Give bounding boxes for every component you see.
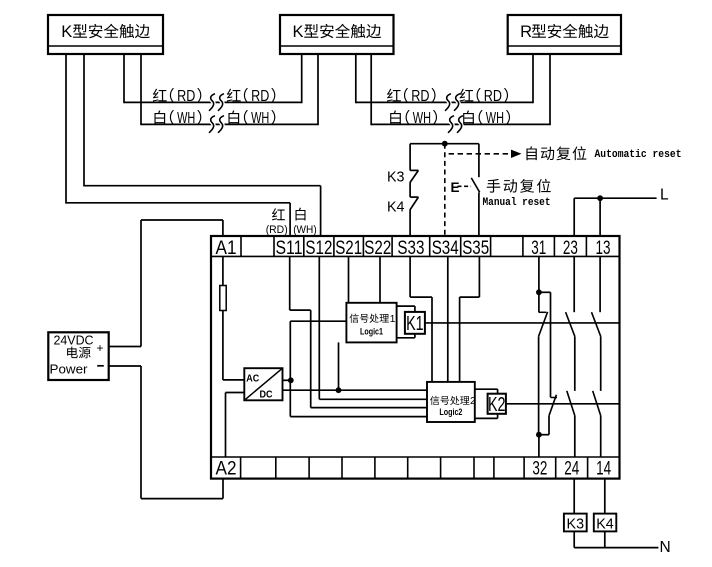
svg-text:Power: Power <box>50 361 89 376</box>
svg-text:13: 13 <box>596 238 611 259</box>
svg-text:WH: WH <box>486 110 504 127</box>
svg-text:14: 14 <box>596 459 611 480</box>
svg-text:A2: A2 <box>216 459 237 480</box>
svg-text:RD: RD <box>411 88 429 105</box>
svg-text:WH: WH <box>177 110 195 127</box>
svg-text:(RD): (RD) <box>266 224 288 236</box>
svg-text:K1: K1 <box>406 313 424 335</box>
svg-text:Logic1: Logic1 <box>360 326 383 336</box>
svg-text:K: K <box>293 23 304 41</box>
svg-text:23: 23 <box>563 238 578 259</box>
svg-text:S12: S12 <box>305 238 332 259</box>
svg-text:K3: K3 <box>387 169 405 186</box>
svg-text:WH: WH <box>413 110 431 127</box>
svg-text:E: E <box>451 180 460 195</box>
svg-text:RD: RD <box>484 88 502 105</box>
svg-text:AC: AC <box>246 372 259 384</box>
svg-text:K4: K4 <box>387 199 405 216</box>
svg-text:R: R <box>520 23 532 41</box>
svg-text:K3: K3 <box>567 515 585 532</box>
svg-text:S11: S11 <box>276 238 303 259</box>
svg-text:WH: WH <box>251 110 269 127</box>
svg-text:DC: DC <box>260 388 273 400</box>
svg-text:RD: RD <box>251 88 269 105</box>
svg-text:K2: K2 <box>488 394 506 416</box>
svg-text:S35: S35 <box>462 238 489 259</box>
svg-text:+: + <box>97 341 104 355</box>
svg-text:24VDC: 24VDC <box>54 332 94 347</box>
svg-text:S21: S21 <box>335 238 362 259</box>
svg-text:A1: A1 <box>216 238 237 259</box>
svg-text:K4: K4 <box>596 515 614 532</box>
svg-text:24: 24 <box>564 459 579 480</box>
svg-text:N: N <box>660 539 671 556</box>
svg-text:(WH): (WH) <box>293 224 317 236</box>
svg-text:RD: RD <box>177 88 195 105</box>
svg-text:1: 1 <box>390 313 396 325</box>
svg-text:2: 2 <box>470 395 476 407</box>
svg-text:Manual reset: Manual reset <box>483 197 551 209</box>
svg-text:S33: S33 <box>397 238 424 259</box>
svg-text:32: 32 <box>532 459 547 480</box>
svg-text:S22: S22 <box>364 238 391 259</box>
svg-text:K: K <box>61 23 72 41</box>
svg-text:31: 31 <box>531 238 546 259</box>
svg-text:Logic2: Logic2 <box>439 407 462 417</box>
svg-text:L: L <box>660 187 669 204</box>
svg-text:Automatic reset: Automatic reset <box>595 149 682 161</box>
svg-text:S34: S34 <box>432 238 459 259</box>
